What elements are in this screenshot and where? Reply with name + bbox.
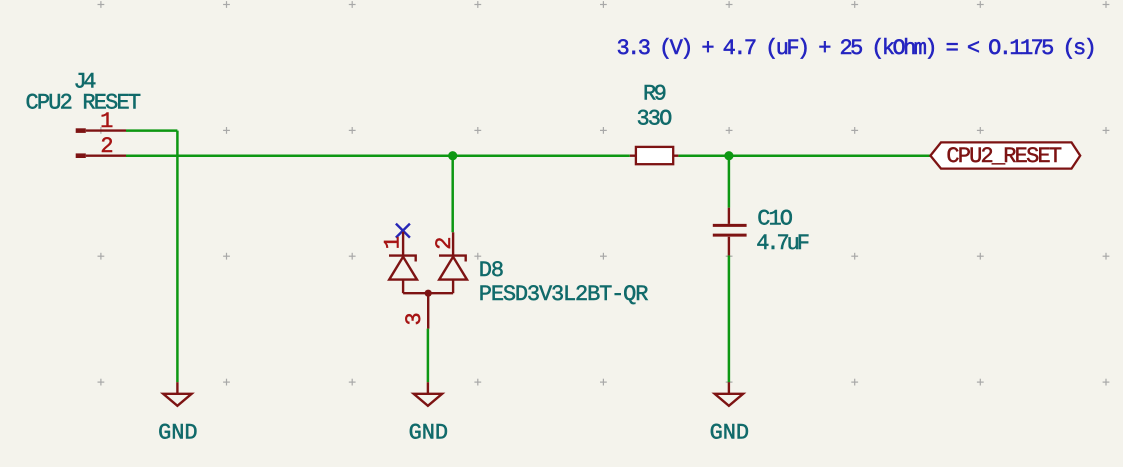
capacitor C10 body <box>713 208 747 256</box>
svg-text:3: 3 <box>402 312 427 325</box>
svg-text:R9: R9 <box>643 81 666 106</box>
svg-text:2: 2 <box>100 134 113 159</box>
svg-text:GND: GND <box>158 421 197 446</box>
wire junction down to diode D8 pin 2 <box>451 156 454 233</box>
resistor R9 body <box>630 147 679 164</box>
no-connect X on D8 pin 1 <box>396 224 410 238</box>
wire capacitor C10 to GND3 <box>728 255 731 382</box>
power symbol GND2 <box>414 382 442 406</box>
power symbol GND1 <box>163 382 191 406</box>
svg-text:4.7uF: 4.7uF <box>756 231 808 256</box>
svg-text:CPU2_RESET: CPU2_RESET <box>946 144 1061 169</box>
svg-text:PESD3V3L2BT-QR: PESD3V3L2BT-QR <box>479 282 648 307</box>
diode D8 pin 3 lead <box>427 293 429 328</box>
wire diode D8 pin 3 to GND2 <box>427 329 430 383</box>
junction at capacitor branch <box>724 151 733 160</box>
svg-text:GND: GND <box>409 421 448 446</box>
svg-text:1: 1 <box>381 236 406 249</box>
svg-text:D8: D8 <box>479 258 503 283</box>
connector J4 pin 1 <box>76 128 126 133</box>
svg-text:CPU2 RESET: CPU2 RESET <box>25 91 140 116</box>
wire pin2 to resistor R9 <box>126 154 630 157</box>
svg-text:33O: 33O <box>636 106 672 131</box>
diode D8 unit A (pin 1) <box>389 232 417 293</box>
wire corner down to GND1 <box>176 131 179 383</box>
junction D8 pin 3 <box>425 290 432 297</box>
global label CPU2_RESET shape <box>930 142 1080 168</box>
junction at diode branch <box>448 151 457 160</box>
connector J4 pin 2 <box>76 153 126 158</box>
power symbol GND3 <box>715 382 743 406</box>
svg-text:2: 2 <box>432 236 457 249</box>
svg-text:GND: GND <box>710 421 749 446</box>
wire pin1 to corner <box>126 129 177 132</box>
wire junction down to capacitor C10 <box>728 156 731 208</box>
svg-text:1: 1 <box>100 109 113 134</box>
svg-text:C1O: C1O <box>757 207 793 232</box>
svg-text:3.3 (V) + 4.7 (uF) + 25 (kOhm): 3.3 (V) + 4.7 (uF) + 25 (kOhm) = < O.117… <box>617 36 1095 61</box>
diode D8 common anode link <box>403 292 453 294</box>
wire resistor to label <box>678 154 930 157</box>
diode D8 unit B (pin 2) <box>439 232 467 293</box>
